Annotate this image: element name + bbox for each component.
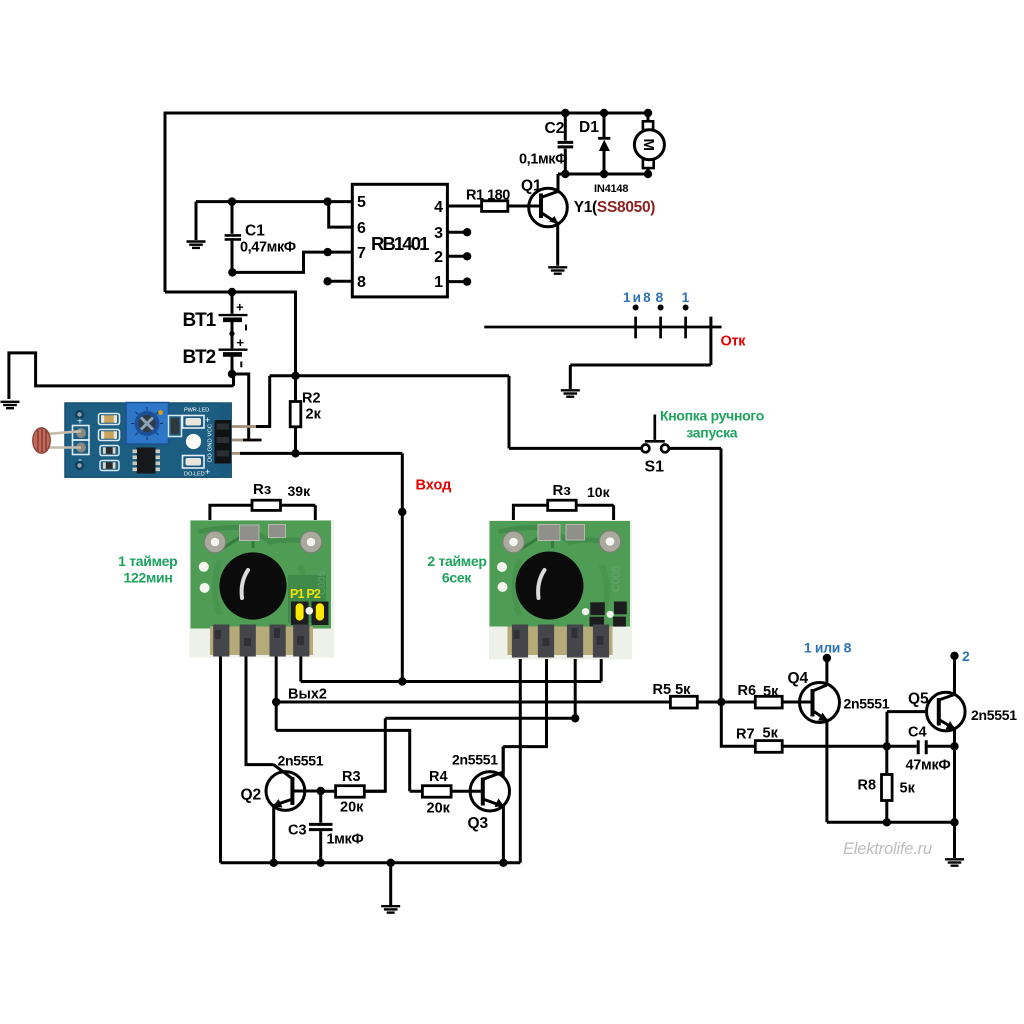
svg-text:1 таймер: 1 таймер <box>118 553 177 569</box>
svg-text:C005: C005 <box>611 566 623 592</box>
svg-text:C2: C2 <box>545 120 565 137</box>
svg-text:2: 2 <box>434 249 443 266</box>
svg-text:5к: 5к <box>763 726 779 742</box>
svg-text:20к: 20к <box>427 801 451 817</box>
svg-text:2n5551: 2n5551 <box>278 753 324 769</box>
svg-text:2к: 2к <box>306 407 322 423</box>
svg-text:запуска: запуска <box>686 425 737 441</box>
svg-text:DO-LED: DO-LED <box>184 472 205 478</box>
svg-text:Q3: Q3 <box>468 815 489 832</box>
svg-text:0,1мкФ: 0,1мкФ <box>519 152 567 168</box>
svg-text:2n5551: 2n5551 <box>452 752 498 768</box>
svg-text:C005: C005 <box>317 571 328 595</box>
svg-text:6: 6 <box>357 220 366 237</box>
svg-text:20к: 20к <box>340 800 364 816</box>
svg-text:39к: 39к <box>288 483 312 499</box>
svg-text:R8: R8 <box>858 778 877 794</box>
svg-text:3: 3 <box>434 225 443 242</box>
svg-text:+: + <box>205 415 210 425</box>
svg-text:R5 5к: R5 5к <box>653 682 692 698</box>
svg-text:5к: 5к <box>900 781 916 797</box>
svg-text:R7: R7 <box>736 727 755 743</box>
svg-text:Q1: Q1 <box>521 178 542 195</box>
svg-text:R1 180: R1 180 <box>466 188 510 204</box>
svg-text:1: 1 <box>434 274 443 291</box>
svg-text:1мкФ: 1мкФ <box>327 832 364 848</box>
svg-text:Q2: Q2 <box>241 787 262 804</box>
svg-text:7: 7 <box>357 245 366 262</box>
svg-text:S1: S1 <box>645 459 665 476</box>
svg-text:6сек: 6сек <box>442 570 472 586</box>
svg-text:0,47мкФ: 0,47мкФ <box>240 240 296 256</box>
svg-text:8: 8 <box>656 289 664 305</box>
svg-text:1 и 8: 1 и 8 <box>623 290 651 305</box>
svg-text:5: 5 <box>357 194 366 211</box>
svg-text:Q5: Q5 <box>908 691 929 708</box>
svg-text:Rз: Rз <box>553 482 571 499</box>
svg-text:R3: R3 <box>342 769 361 785</box>
svg-text:Кнопка ручного: Кнопка ручного <box>660 408 764 424</box>
svg-text:+: + <box>236 300 244 315</box>
svg-text:1 или 8: 1 или 8 <box>804 640 852 656</box>
svg-text:4: 4 <box>434 199 443 216</box>
svg-text:R2: R2 <box>302 391 321 407</box>
svg-text:R6: R6 <box>738 683 757 699</box>
svg-text:8: 8 <box>357 274 366 291</box>
svg-text:Вых2: Вых2 <box>288 687 327 703</box>
svg-text:Y1(SS8050): Y1(SS8050) <box>574 199 656 216</box>
svg-text:10к: 10к <box>587 484 611 500</box>
svg-text:BT1: BT1 <box>183 310 217 331</box>
svg-text:RB1401: RB1401 <box>371 233 429 254</box>
svg-text:Q4: Q4 <box>788 670 809 687</box>
svg-text:2n5551: 2n5551 <box>844 696 890 712</box>
svg-text:2n5551: 2n5551 <box>971 707 1017 723</box>
svg-text:C4: C4 <box>908 725 927 741</box>
svg-text:-: - <box>78 452 82 466</box>
svg-text:2: 2 <box>962 648 970 664</box>
svg-text:M: M <box>640 138 657 151</box>
svg-text:Вход: Вход <box>416 478 452 494</box>
svg-text:5к: 5к <box>763 684 779 700</box>
svg-text:Отк: Отк <box>721 334 747 350</box>
svg-text:DO GND VCC: DO GND VCC <box>208 424 214 462</box>
svg-text:+: + <box>205 467 210 477</box>
svg-text:C1: C1 <box>245 223 265 240</box>
svg-text:BT2: BT2 <box>183 347 216 368</box>
svg-text:Elektrolife.ru: Elektrolife.ru <box>843 840 932 858</box>
svg-text:122мин: 122мин <box>124 570 173 586</box>
svg-text:IN4148: IN4148 <box>594 183 628 195</box>
svg-text:+: + <box>77 417 83 428</box>
svg-text:+: + <box>237 335 245 350</box>
svg-text:47мкФ: 47мкФ <box>906 758 951 774</box>
svg-text:PWR-LED: PWR-LED <box>184 408 209 414</box>
svg-text:1: 1 <box>682 289 690 305</box>
svg-text:2 таймер: 2 таймер <box>427 553 486 569</box>
svg-text:R4: R4 <box>429 769 448 785</box>
svg-text:D1: D1 <box>579 119 599 136</box>
svg-text:C3: C3 <box>288 823 307 839</box>
svg-text:Rз: Rз <box>253 481 271 498</box>
